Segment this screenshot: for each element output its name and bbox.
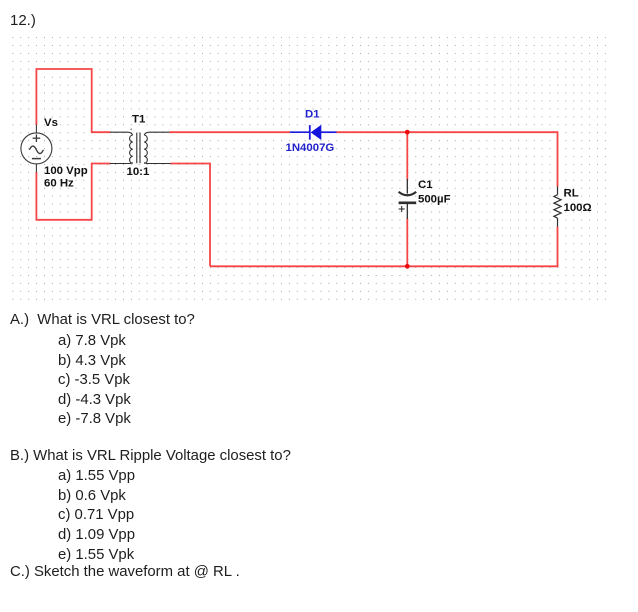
svg-text:D1: D1 (305, 109, 320, 121)
svg-text:RL: RL (564, 188, 579, 200)
svg-text:100 Vpp: 100 Vpp (44, 165, 88, 177)
source Vs (21, 125, 52, 173)
question A (10, 313, 195, 328)
svg-text:10:1: 10:1 (127, 166, 150, 178)
wire: diode to RL top (337, 132, 558, 187)
wire: capacitor bottom to bottom rail (406, 219, 408, 267)
grid dots (9, 34, 609, 302)
capacitor C1 (399, 179, 417, 219)
junction node bottom (405, 264, 410, 269)
svg-text:60 Hz: 60 Hz (44, 178, 74, 190)
wire: Vs bottom loop to transformer primary bottom (36, 164, 110, 220)
svg-text:T1: T1 (132, 114, 146, 126)
wire: junction down to capacitor (406, 132, 408, 179)
wire: transformer secondary top to diode (170, 131, 291, 133)
transformer phase dot (130, 128, 132, 130)
svg-text:500µF: 500µF (418, 194, 451, 206)
svg-text:Vs: Vs (44, 117, 58, 129)
problem number 12.) (10, 13, 36, 28)
transformer T1 (110, 132, 171, 163)
diode D1 (290, 125, 337, 140)
question C (10, 565, 240, 580)
svg-text:100Ω: 100Ω (564, 202, 592, 214)
wire: Vs top loop to transformer primary top (36, 69, 110, 132)
wire: bottom rail (210, 227, 558, 266)
question B (10, 449, 291, 464)
svg-text:C1: C1 (418, 179, 433, 191)
wire: transformer secondary bottom down to bottom rail (171, 164, 211, 267)
schematic canvas (0, 0, 638, 310)
resistor RL (554, 187, 561, 227)
junction node top (405, 130, 410, 135)
svg-text:1N4007G: 1N4007G (286, 142, 335, 154)
